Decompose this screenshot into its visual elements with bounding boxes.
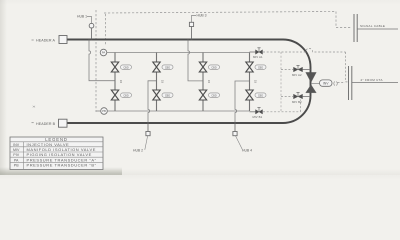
valve INV top branch2: [153, 62, 160, 72]
hub 3 drop wire: [191, 27, 193, 40]
line L2 (upper thin manifold line): [107, 52, 250, 54]
UTA interface double bars: [349, 66, 352, 100]
svg-text:PA: PA: [102, 51, 106, 55]
wire from UTA bars to edge: [352, 82, 398, 84]
valve tag oval branch2 top: [162, 65, 173, 69]
valve tag oval branch3 bottom: [209, 93, 220, 97]
svg-text:HEADER A: HEADER A: [36, 39, 55, 43]
line L3 (lower thin manifold line): [107, 110, 249, 112]
dashed vertical x=279: [280, 52, 282, 112]
svg-text:INV: INV: [323, 82, 329, 86]
wire B2 to loop: [281, 96, 293, 98]
valve MIV A1: [256, 50, 263, 54]
svg-text:MIV A1: MIV A1: [253, 55, 263, 59]
dashed wire B1 to B2: [263, 100, 301, 112]
svg-text:CBD: CBD: [165, 94, 170, 97]
header B left tick: [32, 122, 34, 124]
svg-text:2" FROM UTA: 2" FROM UTA: [361, 78, 383, 82]
hub 3 leader: [192, 16, 197, 23]
svg-text:PIV: PIV: [13, 153, 19, 157]
svg-text:MIV B1: MIV B1: [253, 115, 263, 119]
MIV A1 stub: [250, 51, 256, 53]
svg-text:PB: PB: [14, 164, 19, 168]
valve tag oval branch4 top: [255, 65, 266, 69]
header B box: [59, 119, 68, 127]
svg-text:CBD: CBD: [211, 94, 216, 97]
svg-text:CBD: CBD: [258, 66, 263, 69]
valve MIV A2: [294, 67, 303, 72]
valve INV body (hourglass on loop): [306, 72, 317, 82]
hub 1 leader: [87, 17, 92, 24]
svg-text:CBD: CBD: [165, 66, 170, 69]
svg-text:INV: INV: [13, 143, 20, 147]
branch column 1 wires: [114, 53, 116, 112]
branch 4 feed to header B with hop over L3: [235, 81, 250, 123]
svg-text:1B: 1B: [119, 80, 122, 83]
dashed boundary top edge: [104, 12, 336, 14]
branch column 2 wires: [156, 53, 158, 112]
branch column 4 wires: [249, 53, 251, 112]
svg-text:1B: 1B: [207, 80, 210, 83]
branch column 3 wires: [202, 53, 204, 112]
branch 1 feed from header A with hop over L2: [89, 40, 115, 81]
valve tag oval branch2 bottom: [162, 93, 173, 97]
svg-text:MIV B2: MIV B2: [292, 100, 302, 104]
svg-text:HUB 3: HUB 3: [197, 14, 207, 18]
svg-text:CBD: CBD: [123, 66, 128, 69]
dashed inner stub near hub 1: [105, 14, 107, 46]
line L3 left tail: [97, 110, 101, 112]
hub 3 connector: [189, 22, 193, 26]
svg-text:1B: 1B: [254, 80, 257, 83]
valve INV bottom branch4: [246, 90, 253, 100]
hub 4 drop wire: [234, 123, 236, 132]
valve tag oval branch3 top: [209, 65, 220, 69]
dashed wire A1 to A2: [263, 48, 348, 82]
legend outer box: [10, 137, 103, 170]
valve tag oval branch4 bottom: [255, 93, 266, 97]
svg-text:CBD: CBD: [123, 94, 128, 97]
svg-text:HUB 2: HUB 2: [133, 149, 143, 153]
valve MIV B2: [294, 94, 303, 99]
MIV B1 stub: [250, 111, 256, 113]
page shading bottom-left darker band: [0, 167, 122, 175]
svg-text:HEADER B: HEADER B: [36, 122, 56, 126]
header A box: [59, 36, 67, 44]
valve MIV B1: [256, 110, 263, 114]
connector marks after INV tag: [334, 82, 337, 86]
svg-text:1B: 1B: [161, 80, 164, 83]
dashed boundary right drop to signal cable: [336, 12, 352, 28]
branch 3 feed from header A with hop over L2: [188, 40, 203, 81]
svg-text:MIV A2: MIV A2: [292, 73, 302, 77]
valve INV top branch3: [199, 62, 206, 72]
stray speck left margin: [33, 106, 35, 108]
hub 4 connector: [233, 132, 237, 136]
pressure transducer PB: [101, 108, 108, 115]
dashed boundary left edge: [95, 10, 97, 112]
hub 1 connector: [89, 23, 94, 28]
signal cable double bars: [354, 14, 357, 42]
svg-text:CBD: CBD: [211, 66, 216, 69]
svg-text:PB: PB: [102, 109, 106, 113]
hub 1 drop wire: [91, 28, 93, 40]
svg-text:CBD: CBD: [258, 94, 263, 97]
valve tag oval branch1 top: [121, 65, 132, 69]
svg-text:HUB 1: HUB 1: [77, 15, 87, 19]
legend row lines: [10, 142, 103, 163]
pressure transducer PA: [100, 49, 107, 56]
dashed wire to UTA interface: [338, 82, 346, 84]
hub 2 leader: [145, 136, 148, 150]
legend column divider: [23, 142, 25, 170]
branch 2 feed to header B with hop over L3: [148, 81, 157, 123]
valve INV bottom branch2: [153, 90, 160, 100]
valve INV top branch4: [246, 62, 253, 72]
hub 4 leader: [236, 136, 243, 150]
wire A2 to loop: [281, 69, 293, 71]
header A left tick: [32, 39, 34, 41]
valve INV bottom branch1: [111, 90, 118, 100]
hub 2 drop wire: [147, 123, 149, 132]
hub 2 connector: [146, 132, 150, 136]
valve tag oval branch1 bottom: [121, 93, 132, 97]
svg-text:PRESSURE TRANSDUCER "B": PRESSURE TRANSDUCER "B": [27, 163, 97, 168]
valve INV bottom branch3: [199, 90, 206, 100]
svg-text:PA: PA: [14, 158, 19, 162]
svg-text:HUB 4: HUB 4: [242, 149, 252, 153]
valve INV top branch1: [111, 62, 118, 72]
INV tag oval: [320, 80, 333, 86]
pigging loop: header A, right U-bend, header B (thick): [67, 40, 311, 124]
signal cable wire: [357, 28, 398, 30]
wire INV to tag: [311, 83, 320, 85]
svg-text:SIGNAL CABLE: SIGNAL CABLE: [360, 24, 385, 28]
junction dots: [88, 39, 236, 124]
svg-text:MIV: MIV: [13, 148, 20, 152]
